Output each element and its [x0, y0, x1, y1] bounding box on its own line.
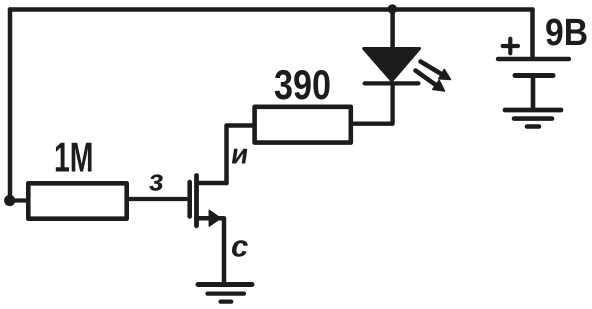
pin label з (gate) — [147, 165, 165, 198]
svg-text:390: 390 — [274, 61, 331, 108]
wire R2 to LED — [353, 85, 393, 124]
pin label и (source) — [229, 139, 251, 170]
LED D1 anode wire — [390, 10, 395, 50]
svg-text:9В: 9В — [545, 12, 588, 54]
ground G2 — [505, 110, 561, 127]
LED D1 cathode bar — [365, 81, 419, 85]
battery BT1 positive plate — [498, 57, 569, 61]
LED light arrow upper — [421, 62, 444, 76]
wire node to R1 — [10, 198, 28, 202]
battery BT1 plus sign — [503, 39, 518, 54]
node junction top (LED tap) — [388, 4, 398, 14]
svg-text:з: з — [147, 165, 165, 198]
resistor R2 390 — [255, 107, 351, 143]
transistor Q1 bottom lead — [197, 216, 223, 221]
wire battery drop — [530, 10, 535, 58]
wire source up to R2 — [227, 126, 254, 184]
node junction left — [4, 195, 15, 206]
svg-text:1M: 1M — [54, 134, 94, 181]
transistor Q1 arrow — [209, 210, 220, 226]
wire R1 to gate — [129, 197, 186, 201]
wire battery to ground — [531, 77, 536, 108]
LED D1 triangle — [364, 49, 420, 81]
transistor Q1 top lead — [197, 181, 227, 186]
ground G1 — [198, 285, 252, 302]
battery BT1 negative plate — [515, 73, 553, 78]
wire drain down — [222, 218, 227, 282]
svg-text:и: и — [229, 139, 251, 170]
resistor R1 1M — [28, 183, 126, 218]
wire left rail — [8, 10, 13, 199]
LED light arrow lower — [416, 71, 437, 86]
transistor Q1 channel bar — [194, 176, 199, 226]
transistor Q1 gate bar — [187, 182, 192, 217]
svg-text:c: c — [231, 229, 248, 264]
wire top rail — [10, 7, 533, 12]
